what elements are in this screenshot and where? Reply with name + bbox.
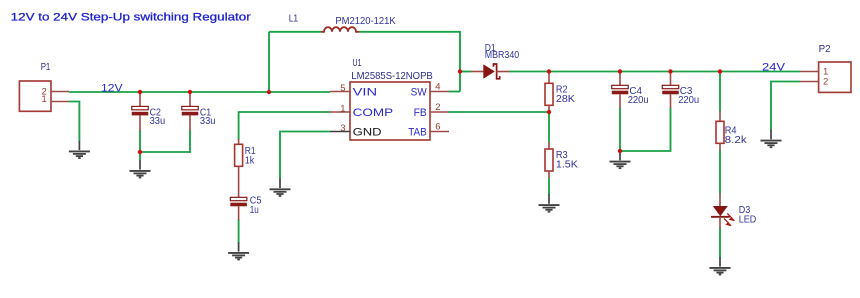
svg-text:220u: 220u [628,95,649,106]
junction node 12V-C2 [138,90,142,94]
junction node 12V-L1 [267,90,271,94]
svg-text:LM2585S-12NOPB: LM2585S-12NOPB [351,71,433,82]
wire 24V to R4 [719,72,721,113]
svg-text:8.2k: 8.2k [725,135,747,146]
junction node SW-D1 [458,69,462,73]
resistor R3 [545,142,553,178]
ground (R3) [539,195,560,212]
resistor R4 [716,111,724,151]
svg-text:2: 2 [823,76,828,87]
wire 24V rail [509,71,800,73]
junction node 24V-C3 [668,69,672,73]
wire 12V rail [69,91,330,93]
svg-text:U1: U1 [353,58,362,69]
pin 6 TAB stub [430,131,449,133]
svg-text:TAB: TAB [408,126,427,138]
wire L1 left lead [269,31,321,33]
svg-text:33u: 33u [150,116,166,127]
svg-text:28K: 28K [556,94,576,105]
pin 2 FB stub [430,111,449,113]
svg-text:1.5K: 1.5K [556,160,579,171]
wire GND pin to ground [280,132,330,180]
ground (C4 C3) [610,151,631,168]
pin 3 GND stub [330,131,350,133]
pin 5 VIN stub [330,91,350,93]
junction node 24V-C4 [618,69,622,73]
wire LED to ground [719,227,721,258]
svg-text:L1: L1 [289,14,299,25]
ground (C2 C1) [130,160,151,177]
resistor R1 [235,139,243,197]
wire P2 pin2 to ground [771,82,800,132]
junction node 24V-R4 [718,69,722,73]
resistor R2 [545,72,553,113]
svg-text:24V: 24V [762,62,786,74]
ground (P2) [761,130,782,147]
connector P2 [800,62,851,92]
capacitor C3 [662,72,679,109]
pin 4 SW stub [430,91,449,93]
svg-text:33u: 33u [200,116,216,127]
op-amp U1 (regulator IC) [330,82,449,140]
wire C4 bottom [619,108,621,152]
svg-text:LED: LED [739,214,757,225]
svg-text:2: 2 [435,102,440,113]
diode D1 [471,64,510,79]
svg-text:4: 4 [435,81,440,92]
svg-text:5: 5 [340,83,345,94]
svg-text:PM2120-121K: PM2120-121K [335,16,396,27]
capacitor C2 [132,92,149,131]
junction node C2-gnd [138,150,142,154]
capacitor C4 [612,72,629,109]
svg-text:COMP: COMP [353,107,394,119]
ground (LED) [710,257,731,274]
wire C1 bottom [140,130,190,152]
svg-text:FB: FB [414,107,427,119]
svg-text:6: 6 [435,121,440,132]
svg-text:1: 1 [42,94,47,105]
wire FB [449,111,549,113]
svg-text:P2: P2 [819,44,831,55]
junction node C4-gnd [618,149,622,153]
svg-text:1u: 1u [250,205,259,216]
pin 1 COMP stub [330,111,350,113]
junction node FB [547,110,551,114]
junction node 24V-R2 [547,69,551,73]
capacitor C5 [230,197,247,220]
capacitor C1 [182,92,199,131]
wire R4 to LED [719,150,721,194]
svg-text:1k: 1k [245,155,255,166]
svg-text:GND: GND [353,126,382,138]
svg-text:220u: 220u [678,95,699,106]
connector P1 [19,81,69,111]
wire C3 bottom [620,108,671,152]
ground (U1 GND pin) [270,179,291,196]
wire P1 pin1 to ground [69,102,79,142]
wire 12V node up to L1 [268,32,270,92]
svg-text:12V to 24V Step-Up switching R: 12V to 24V Step-Up switching Regulator [11,11,251,23]
wire R2 to R3 [548,112,550,143]
wire C2 ground stub [139,152,141,161]
wire C5 to ground [238,219,240,244]
svg-text:MBR340: MBR340 [485,50,520,61]
inductor L1 [321,27,359,32]
svg-text:P1: P1 [41,62,51,73]
wire D1 anode [460,71,471,73]
svg-text:1: 1 [340,103,345,114]
svg-text:3: 3 [340,123,345,134]
wire L1 right to SW node [359,32,460,92]
ground (C5) [228,242,249,259]
junction node 12V-C1 [188,90,192,94]
wire C2 bottom [139,130,141,152]
ground (P1) [69,141,90,158]
svg-text:12V: 12V [101,82,123,94]
wire SW to node [449,91,460,93]
svg-text:SW: SW [411,86,427,98]
wire R3 to ground [548,178,550,196]
wire COMP to R1 [239,112,330,140]
LED D3 [711,194,734,229]
svg-text:VIN: VIN [353,86,378,98]
